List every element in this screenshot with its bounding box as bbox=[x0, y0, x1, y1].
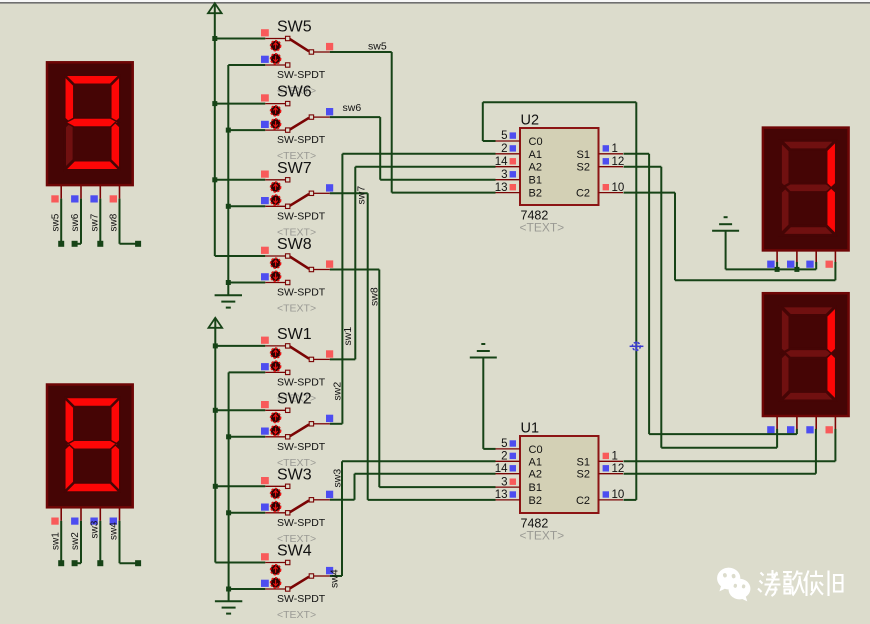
svg-text:10: 10 bbox=[612, 182, 625, 194]
wire SW2 top contact bbox=[215, 409, 265, 411]
U2 pin 2 (A1) bbox=[496, 153, 521, 155]
wire U1.S1 -> BR pin4 bbox=[624, 460, 836, 462]
wire TR ground bus bbox=[725, 231, 727, 270]
wire SW7 top contact bbox=[215, 179, 265, 181]
svg-text:SW-SPDT: SW-SPDT bbox=[277, 517, 326, 529]
origin marker (blue crosshair) bbox=[630, 341, 644, 351]
U2 pin 10 (C2) bbox=[599, 192, 624, 194]
7-segment display DS4 (sw1-4) bbox=[47, 385, 133, 508]
wire SW1 bottom contact bbox=[229, 371, 266, 373]
svg-text:A1: A1 bbox=[529, 456, 542, 468]
svg-text:SW-SPDT: SW-SPDT bbox=[277, 134, 326, 146]
svg-text:14: 14 bbox=[495, 463, 508, 475]
svg-text:A1: A1 bbox=[529, 149, 542, 161]
IC U2 7482 adder bbox=[495, 113, 625, 235]
wire BL display pin1 to terminal bbox=[60, 521, 62, 563]
wire U2.S1 -> BR pin2 bbox=[624, 153, 650, 155]
wire U2.C2 -> TR pin4 bbox=[624, 192, 676, 194]
U2 pin 13 (B2) bbox=[496, 192, 521, 194]
display DS3 (sw5-8) pin 4 stub bbox=[119, 185, 121, 199]
svg-text:sw7: sw7 bbox=[90, 213, 101, 231]
U1 pin 14 (A2) bbox=[496, 473, 521, 475]
U2 pin 12 (S2) bbox=[599, 166, 624, 168]
wire SW7 bottom contact bbox=[228, 205, 265, 207]
wire net sw2 -> U2.A1 bbox=[330, 423, 343, 425]
display DS2 (sum) pin 3 stub bbox=[815, 416, 817, 430]
junction power rail / SW7 bbox=[212, 177, 217, 182]
U2 pin 3 (B1) bbox=[496, 179, 521, 181]
svg-text:sw6: sw6 bbox=[70, 213, 81, 231]
svg-text:S2: S2 bbox=[577, 469, 590, 481]
wire SW6 top contact bbox=[215, 103, 265, 105]
svg-text:B2: B2 bbox=[529, 188, 542, 200]
svg-text:5: 5 bbox=[501, 438, 507, 450]
U1 pin 3 (B1) bbox=[496, 486, 521, 488]
svg-text:3: 3 bbox=[501, 169, 507, 181]
junction power rail / SW1 bbox=[213, 343, 218, 348]
wire TL display pin2 to terminal bbox=[80, 199, 82, 244]
svg-text:C0: C0 bbox=[529, 136, 543, 148]
svg-text:sw5: sw5 bbox=[368, 41, 387, 53]
display DS4 (sw1-4) pin 1 stub bbox=[60, 507, 62, 521]
svg-text:13: 13 bbox=[495, 489, 508, 501]
svg-text:sw4: sw4 bbox=[109, 522, 120, 540]
display DS1 (carry) pin 2 stub bbox=[796, 250, 798, 264]
display DS3 (sw5-8) pin 3 stub bbox=[99, 185, 101, 199]
svg-text:sw5: sw5 bbox=[50, 213, 61, 231]
svg-text:1: 1 bbox=[612, 451, 618, 463]
svg-text:SW3: SW3 bbox=[277, 466, 312, 483]
svg-text:S1: S1 bbox=[577, 456, 590, 468]
wire SW6 bottom contact bbox=[228, 129, 265, 131]
switch SW3 (SW-SPDT) bbox=[261, 466, 333, 545]
switch SW5 (SW-SPDT) bbox=[261, 19, 333, 98]
wire power rail bottom group bbox=[214, 320, 216, 563]
svg-text:SW2: SW2 bbox=[277, 390, 312, 407]
svg-text:SW-SPDT: SW-SPDT bbox=[277, 593, 326, 605]
junction ground rail / SW7 bbox=[226, 204, 231, 209]
wire TL display pin1 to terminal bbox=[60, 199, 62, 244]
wire net sw1 -> U2.A2 bbox=[330, 358, 356, 360]
svg-text:S1: S1 bbox=[577, 149, 590, 161]
svg-text:B2: B2 bbox=[529, 495, 542, 507]
wire net sw5 -> U2.B2 bbox=[330, 51, 392, 53]
svg-text:1: 1 bbox=[612, 143, 618, 155]
junction power rail / SW5 bbox=[212, 36, 217, 41]
IC U1 7482 adder bbox=[495, 421, 625, 543]
svg-text:SW5: SW5 bbox=[277, 19, 312, 36]
svg-text:sw6: sw6 bbox=[343, 102, 362, 114]
switch SW4 (SW-SPDT) bbox=[261, 543, 333, 622]
svg-text:SW-SPDT: SW-SPDT bbox=[277, 210, 326, 222]
power terminal (top group) bbox=[208, 3, 222, 13]
svg-text:SW-SPDT: SW-SPDT bbox=[277, 441, 326, 453]
svg-text:10: 10 bbox=[612, 489, 625, 501]
svg-text:SW-SPDT: SW-SPDT bbox=[277, 287, 326, 299]
wire SW2 bottom contact bbox=[229, 436, 266, 438]
power terminal (bottom group) bbox=[209, 318, 223, 328]
switch SW7 (SW-SPDT) bbox=[261, 160, 333, 239]
U1 pin 2 (A1) bbox=[496, 460, 521, 462]
wire U2.S2 -> BR pin1 bbox=[624, 166, 662, 168]
svg-text:S2: S2 bbox=[577, 162, 590, 174]
svg-text:sw8: sw8 bbox=[369, 287, 381, 306]
svg-text:13: 13 bbox=[495, 182, 508, 194]
wire SW1 top contact bbox=[215, 345, 265, 347]
svg-text:SW6: SW6 bbox=[277, 84, 312, 101]
watermark text tao-ge-yi-jiu bbox=[758, 570, 843, 596]
wire U1.S2 -> BR pin3 bbox=[624, 473, 816, 475]
U1 pin 13 (B2) bbox=[496, 499, 521, 501]
wire SW3 top contact bbox=[215, 485, 265, 487]
display DS2 (sum) pin 2 stub bbox=[796, 416, 798, 430]
window top edge strip bbox=[0, 0, 870, 2]
svg-text:2: 2 bbox=[501, 143, 507, 155]
display DS1 (carry) pin 4 stub bbox=[834, 250, 836, 264]
svg-text:2: 2 bbox=[501, 451, 507, 463]
display DS3 (sw5-8) pin 2 stub bbox=[80, 185, 82, 199]
U1 pin 1 (S1) bbox=[599, 460, 624, 462]
junction ground rail / SW4 bbox=[226, 587, 231, 592]
switch SW1 (SW-SPDT) bbox=[261, 326, 333, 405]
wire TL display pin3 to terminal bbox=[99, 199, 101, 244]
wire BL display pin4 to terminal bbox=[119, 521, 121, 563]
wire SW4 top contact bbox=[215, 562, 265, 564]
wire BL display pin2 to terminal bbox=[80, 521, 82, 563]
wire net sw6 -> U2.B1 bbox=[330, 116, 380, 118]
wire TL display pin4 to terminal bbox=[119, 199, 121, 244]
svg-text:C2: C2 bbox=[576, 495, 590, 507]
svg-text:sw4: sw4 bbox=[329, 569, 341, 588]
svg-text:<TEXT>: <TEXT> bbox=[277, 609, 316, 621]
svg-text:SW-SPDT: SW-SPDT bbox=[277, 376, 326, 388]
svg-text:SW1: SW1 bbox=[277, 326, 312, 343]
junction ground rail / SW2 bbox=[226, 434, 231, 439]
svg-text:sw2: sw2 bbox=[70, 532, 81, 550]
junction power rail / SW3 bbox=[213, 484, 218, 489]
wire ground rail top group bbox=[227, 65, 229, 295]
wire SW5 bottom contact bbox=[228, 64, 265, 66]
ground (top switch group) bbox=[215, 294, 242, 296]
display DS4 (sw1-4) pin 3 stub bbox=[99, 507, 101, 521]
wire net sw7 -> U1.B2 bbox=[330, 192, 368, 194]
svg-text:C2: C2 bbox=[576, 188, 590, 200]
svg-text:5: 5 bbox=[501, 130, 507, 142]
wire net sw8 -> U1.B1 bbox=[330, 269, 380, 271]
svg-text:sw2: sw2 bbox=[332, 382, 344, 401]
svg-text:sw1: sw1 bbox=[50, 532, 61, 550]
svg-text:3: 3 bbox=[501, 476, 507, 488]
wire TR pins 1-3 to ground bus bbox=[776, 262, 778, 269]
junction ground rail / SW6 bbox=[226, 128, 231, 133]
ground (U1 carry-in) bbox=[481, 343, 485, 345]
wire net sw3 -> U1.A2 bbox=[330, 499, 355, 501]
svg-text:12: 12 bbox=[612, 156, 625, 168]
wire SW5 top contact bbox=[215, 38, 265, 40]
svg-text:SW7: SW7 bbox=[277, 160, 312, 177]
svg-text:sw1: sw1 bbox=[342, 327, 354, 346]
svg-text:12: 12 bbox=[612, 463, 625, 475]
7-segment display DS3 (sw5-8) bbox=[47, 62, 133, 185]
ground (bottom switch group) bbox=[215, 600, 242, 602]
svg-text:sw3: sw3 bbox=[90, 520, 101, 538]
wire SW8 bottom contact bbox=[228, 282, 265, 284]
wire SW3 bottom contact bbox=[229, 512, 266, 514]
svg-text:U2: U2 bbox=[521, 113, 540, 129]
junction power rail / SW6 bbox=[212, 101, 217, 106]
svg-text:14: 14 bbox=[495, 156, 508, 168]
U2 pin 14 (A2) bbox=[496, 166, 521, 168]
U1 pin 10 (C2) bbox=[599, 499, 624, 501]
switch SW2 (SW-SPDT) bbox=[261, 390, 333, 469]
wire BL display pin3 to terminal bbox=[99, 521, 101, 563]
display DS3 (sw5-8) pin 1 stub bbox=[60, 185, 62, 199]
wire ground rail bottom group bbox=[228, 372, 230, 601]
display DS1 (carry) pin 3 stub bbox=[815, 250, 817, 264]
display DS1 (carry) pin 1 stub bbox=[776, 250, 778, 264]
svg-text:<TEXT>: <TEXT> bbox=[520, 221, 565, 235]
wire SW8 top contact bbox=[215, 255, 265, 257]
display DS4 (sw1-4) pin 4 stub bbox=[119, 507, 121, 521]
svg-text:SW4: SW4 bbox=[277, 543, 312, 560]
junction TR ground bus bbox=[794, 267, 799, 272]
junction ground rail / SW8 bbox=[226, 280, 231, 285]
U2 pin 5 (C0) bbox=[496, 140, 521, 142]
wire SW4 bottom contact bbox=[229, 588, 266, 590]
svg-text:U1: U1 bbox=[521, 421, 540, 437]
display DS4 (sw1-4) pin 2 stub bbox=[80, 507, 82, 521]
svg-text:SW8: SW8 bbox=[277, 236, 312, 253]
switch SW8 (SW-SPDT) bbox=[261, 236, 333, 315]
wire power rail top group bbox=[214, 5, 216, 256]
junction ground rail / SW3 bbox=[226, 510, 231, 515]
svg-text:<TEXT>: <TEXT> bbox=[520, 529, 565, 543]
WeChat logo watermark bbox=[717, 568, 750, 602]
wire ground -> U1.C0 bbox=[482, 358, 484, 449]
svg-text:<TEXT>: <TEXT> bbox=[277, 303, 316, 315]
display DS2 (sum) pin 1 stub bbox=[776, 416, 778, 430]
svg-text:A2: A2 bbox=[529, 469, 542, 481]
U2 pin 1 (S1) bbox=[599, 153, 624, 155]
svg-text:C0: C0 bbox=[529, 444, 543, 456]
7-segment display DS2 (sum) bbox=[763, 293, 849, 416]
svg-text:sw8: sw8 bbox=[109, 213, 120, 231]
7-segment display DS1 (carry) bbox=[763, 128, 849, 251]
U1 pin 5 (C0) bbox=[496, 448, 521, 450]
svg-text:sw7: sw7 bbox=[356, 186, 368, 205]
display DS2 (sum) pin 4 stub bbox=[834, 416, 836, 430]
wire carry U1.C2 -> U2.C0 bbox=[483, 140, 496, 142]
ground (TR display inputs) bbox=[724, 216, 728, 218]
svg-text:SW-SPDT: SW-SPDT bbox=[277, 69, 326, 81]
svg-text:A2: A2 bbox=[529, 162, 542, 174]
switch SW6 (SW-SPDT) bbox=[261, 84, 333, 163]
junction power rail / SW2 bbox=[213, 408, 218, 413]
svg-text:B1: B1 bbox=[529, 175, 542, 187]
U1 pin 12 (S2) bbox=[599, 473, 624, 475]
svg-text:B1: B1 bbox=[529, 482, 542, 494]
wire net sw4 -> U1.A1 bbox=[330, 575, 342, 577]
junction TR ground bus bbox=[775, 267, 780, 272]
